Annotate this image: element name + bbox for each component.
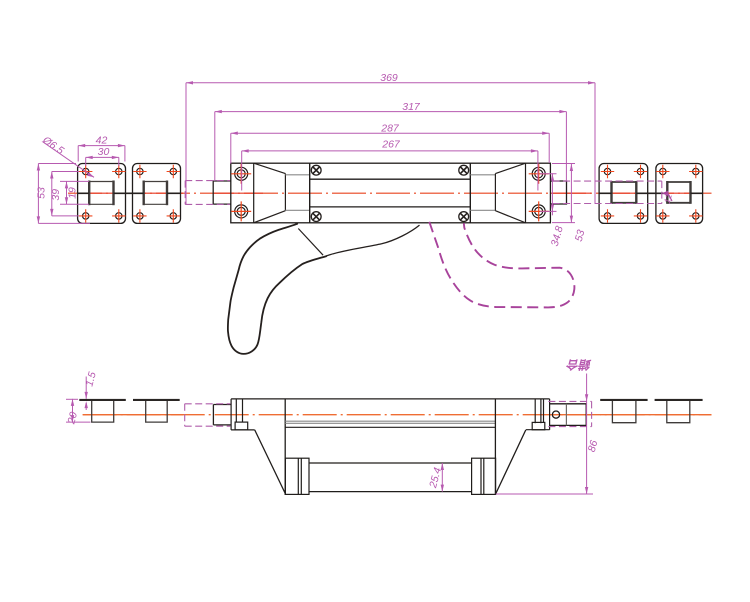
plate P2 hole centermarks bbox=[133, 165, 180, 223]
flange hole top-left bbox=[235, 167, 248, 180]
right support diagonal bbox=[496, 430, 526, 494]
screw U4 bottom-right bbox=[459, 212, 469, 222]
svg-text:30: 30 bbox=[98, 146, 110, 158]
svg-text:317: 317 bbox=[402, 101, 421, 113]
plate P4 bbox=[656, 164, 703, 224]
bolt step line bbox=[565, 404, 567, 426]
dim 30 bbox=[86, 157, 119, 166]
dim 19 bbox=[60, 181, 89, 204]
plate P4 inner box bbox=[667, 181, 690, 204]
hat H4 boss bbox=[667, 401, 690, 423]
body right flange edge bbox=[525, 163, 527, 223]
svg-text:42: 42 bbox=[96, 134, 108, 146]
recess left edge bbox=[309, 163, 311, 223]
hat H3 boss bbox=[612, 401, 636, 423]
centerline main (top view) bbox=[68, 192, 712, 194]
hat H3 flange bbox=[600, 399, 647, 401]
svg-text:369: 369 bbox=[380, 72, 398, 84]
handle grip (closed position) bbox=[228, 224, 326, 354]
plate P1 holes bbox=[83, 168, 123, 219]
dim 39 bbox=[52, 172, 79, 216]
flange hole bottom-left bbox=[235, 205, 248, 218]
dim 20 bbox=[66, 399, 91, 422]
grip cap left bbox=[285, 458, 309, 494]
dim 86 and note leader bbox=[496, 374, 593, 495]
right support edge bbox=[494, 399, 496, 494]
body left trapezoid bbox=[254, 163, 286, 223]
flange hole bottom-right bbox=[532, 205, 545, 218]
dim 287 bbox=[231, 133, 549, 164]
screw U3 top-right bbox=[459, 165, 469, 175]
rod solid red segments bbox=[78, 192, 703, 194]
plate P1 hole centermarks bbox=[79, 165, 126, 223]
phantom handle (open position) bbox=[429, 222, 574, 308]
plate P3 holes bbox=[604, 168, 643, 219]
body right trapezoid gray lines bbox=[470, 175, 495, 211]
plate P1 inner box bbox=[89, 181, 113, 206]
left support diagonal bbox=[255, 430, 286, 494]
plate P3 inner box bbox=[612, 181, 637, 204]
dim 53 left bbox=[38, 164, 90, 224]
body top edge (bottom view) bbox=[231, 398, 549, 400]
latch bolt (top view) bbox=[550, 181, 566, 204]
plate P3 hole centermarks bbox=[601, 165, 647, 223]
recess right edge bbox=[469, 163, 471, 223]
hat H4 flange bbox=[655, 399, 703, 401]
dim 369 bbox=[186, 83, 595, 204]
spindle stub left (bottom view) bbox=[213, 405, 231, 425]
grip bar bbox=[309, 463, 472, 492]
svg-text:287: 287 bbox=[380, 122, 400, 134]
latch bolt (bottom view) bbox=[550, 404, 587, 426]
plate P2 holes bbox=[137, 168, 177, 219]
handle paddle underside bbox=[326, 225, 419, 256]
spindle stub left (top view) bbox=[213, 181, 231, 204]
body left trapezoid gray lines bbox=[285, 175, 309, 211]
dim 53 right bbox=[552, 164, 575, 223]
dim 42 bbox=[78, 146, 125, 162]
bolt pin hole bbox=[552, 411, 559, 418]
svg-text:267: 267 bbox=[381, 139, 401, 151]
dim 34.8 bbox=[540, 173, 557, 215]
svg-text:錯合: 錯合 bbox=[566, 358, 592, 372]
flange hole top-right bbox=[532, 167, 545, 180]
body right end cap bbox=[526, 399, 550, 430]
hat H2 boss bbox=[146, 401, 168, 422]
dim 25.4 bbox=[441, 463, 443, 492]
body outline (top view) bbox=[231, 163, 551, 223]
leader dia 6.5 bbox=[43, 142, 94, 177]
body left flange edge bbox=[253, 163, 255, 223]
dim 267 bbox=[242, 151, 538, 191]
plate P3 bbox=[599, 164, 648, 224]
hat H1 flange bbox=[79, 399, 126, 401]
plate P4 holes bbox=[660, 168, 699, 219]
rod black segments right bbox=[599, 192, 703, 194]
plate P2 bbox=[133, 164, 181, 224]
body inner black line (bottom view) bbox=[285, 426, 495, 428]
rod black segments left bbox=[78, 192, 181, 194]
hat H2 flange bbox=[133, 399, 180, 401]
hat H1 boss bbox=[92, 401, 114, 422]
handle crease bbox=[298, 229, 323, 256]
centerline (bottom view) bbox=[83, 414, 712, 416]
grip cap right bbox=[472, 458, 496, 494]
screw U1 top-left bbox=[311, 165, 321, 175]
leader 12 arrow bbox=[662, 191, 674, 205]
phantom latch projection (top view right) bbox=[553, 181, 662, 203]
body left end cap bbox=[231, 399, 255, 430]
plate P1 bbox=[78, 164, 126, 224]
body inner gray lines (bottom view) bbox=[285, 421, 495, 423]
dim 317 bbox=[215, 112, 567, 181]
screw U2 bottom-left bbox=[311, 212, 321, 222]
phantom spindle box left (top view) bbox=[185, 181, 230, 205]
plate P4 hole centermarks bbox=[656, 165, 702, 223]
plate P2 inner box bbox=[144, 181, 167, 206]
svg-text:39: 39 bbox=[50, 189, 62, 201]
phantom spindle box left (bottom view) bbox=[185, 404, 231, 426]
recess lines bbox=[310, 179, 471, 207]
svg-text:19: 19 bbox=[67, 187, 79, 199]
phantom bolt box (bottom view) bbox=[548, 401, 591, 426]
body right trapezoid bbox=[495, 163, 525, 223]
flange hole centermarks bbox=[231, 164, 549, 222]
left support edge bbox=[284, 399, 286, 495]
svg-text:53: 53 bbox=[36, 187, 48, 199]
dim 1.5 bbox=[85, 377, 87, 411]
